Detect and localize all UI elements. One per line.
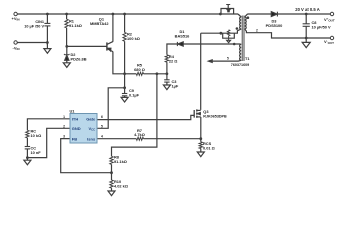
pin number 2 transformer bbox=[256, 29, 258, 33]
wire C8 stub bottom bbox=[305, 26, 307, 38]
capacitor C8 bbox=[303, 24, 310, 27]
wire C8 stub top bbox=[305, 14, 307, 24]
wire D2 top bbox=[66, 46, 68, 54]
ground R10 bbox=[108, 191, 115, 196]
wire gate line from pin6 bbox=[97, 115, 194, 119]
svg-text:10 µF/50 V: 10 µF/50 V bbox=[312, 24, 332, 29]
wire Q1 collector bbox=[112, 14, 114, 42]
snubber diode D4 bbox=[227, 9, 230, 11]
diode D3 bbox=[271, 12, 277, 17]
label R4 bbox=[169, 54, 178, 64]
svg-text:T1: T1 bbox=[245, 56, 250, 61]
transistor Q3 mosfet bbox=[194, 109, 201, 117]
junction node A node B bbox=[156, 72, 159, 75]
wire Isns line pin4 to R7 bbox=[97, 138, 136, 140]
wire secondary output to +VOUT bbox=[278, 13, 331, 15]
terminal -VIN bbox=[14, 41, 17, 44]
pin text GND bbox=[72, 126, 81, 131]
wire R8 to FB junction bbox=[111, 164, 113, 180]
resistor RC bbox=[26, 130, 29, 138]
pin text FB bbox=[72, 136, 77, 141]
label R8 bbox=[114, 154, 127, 164]
transformer T1 secondary winding bbox=[245, 17, 247, 29]
wire ITH to RC bbox=[27, 119, 70, 131]
junction R1 D2 base bbox=[65, 45, 68, 48]
wire R4 bottom to node B bbox=[166, 62, 168, 74]
svg-text:VCC: VCC bbox=[88, 126, 95, 132]
resistor RCS bbox=[199, 142, 202, 149]
label Q3 bbox=[203, 109, 227, 119]
svg-text:BAS516: BAS516 bbox=[175, 33, 191, 38]
svg-text:10 µF /50 V: 10 µF /50 V bbox=[24, 25, 44, 29]
terminal +VOUT bbox=[330, 12, 333, 15]
resistor R5 bbox=[136, 72, 143, 75]
diode D1 bbox=[177, 42, 183, 46]
svg-text:4.7kΩ: 4.7kΩ bbox=[134, 132, 145, 137]
terminal arrow aux bbox=[208, 60, 212, 63]
junction CC ground bbox=[26, 156, 29, 159]
junction output C8 top bbox=[305, 13, 308, 16]
svg-text:MMBTA42: MMBTA42 bbox=[90, 21, 109, 26]
phase dot aux bbox=[233, 43, 236, 46]
label D1 bbox=[175, 29, 191, 39]
wire CC to ground junction bbox=[26, 149, 28, 161]
wire CIN1 column bottom bbox=[46, 26, 48, 45]
pin number 5 transformer bbox=[227, 57, 229, 61]
ground C3 bbox=[163, 85, 170, 90]
svg-text:CIN1: CIN1 bbox=[35, 20, 44, 24]
svg-text:91.1kΩ: 91.1kΩ bbox=[69, 23, 82, 28]
phase dot secondary bbox=[247, 16, 250, 19]
svg-text:U1: U1 bbox=[70, 109, 76, 114]
label CIN1 value bbox=[24, 20, 44, 29]
label U1 bbox=[70, 109, 76, 114]
label RCS bbox=[203, 141, 215, 151]
resistor R2 bbox=[123, 32, 126, 41]
wire -VIN rail bbox=[17, 42, 47, 44]
capacitor C3 bbox=[164, 80, 169, 82]
svg-text:ITH: ITH bbox=[72, 117, 79, 122]
pin number 2 bbox=[63, 124, 65, 128]
capacitor CIN1 bbox=[44, 23, 50, 26]
pin text ITH bbox=[72, 117, 79, 122]
svg-text:Q3: Q3 bbox=[203, 109, 209, 114]
wire node A from R2 to R5 bbox=[125, 73, 137, 75]
label -VIN bbox=[13, 46, 20, 52]
svg-text:91.1kΩ: 91.1kΩ bbox=[114, 159, 127, 164]
label R10 bbox=[114, 179, 128, 189]
wire C9 node to VCC vertical bbox=[97, 88, 125, 129]
pin text Isns bbox=[87, 136, 96, 141]
wire Q1 base from R1/D2 node bbox=[67, 45, 107, 47]
label C9 bbox=[129, 88, 140, 98]
svg-text:22 Ω: 22 Ω bbox=[169, 58, 178, 63]
op-amp U1 LTC3803 body bbox=[70, 114, 97, 144]
svg-text:10 nF: 10 nF bbox=[31, 150, 42, 155]
junction node A D1/C3 bbox=[166, 72, 169, 75]
label C8 bbox=[312, 20, 332, 30]
svg-text:GND: GND bbox=[72, 126, 81, 131]
svg-text:4.02 kΩ: 4.02 kΩ bbox=[114, 184, 128, 189]
wire C9 stub bbox=[124, 88, 126, 94]
pin number 1 bbox=[63, 115, 65, 119]
svg-text:760371609: 760371609 bbox=[231, 63, 249, 67]
ground CC bbox=[24, 160, 31, 165]
label D2 bbox=[71, 52, 87, 62]
ground D2 bbox=[63, 63, 70, 68]
svg-text:V+OUT: V+OUT bbox=[324, 17, 335, 23]
junction rail R1 bbox=[65, 13, 68, 16]
svg-text:PDS5100: PDS5100 bbox=[266, 23, 283, 28]
wire CIN1 column top bbox=[46, 14, 48, 23]
junction RCS Isns bbox=[199, 137, 202, 140]
svg-text:0.01 Ω: 0.01 Ω bbox=[203, 146, 215, 151]
wire line A primary bottom to drain corner bbox=[201, 29, 242, 33]
snubber cap stub C4 bbox=[226, 5, 230, 9]
pin number 4 bbox=[101, 135, 103, 139]
snubber box D4/C4 on rail bbox=[221, 9, 234, 14]
svg-text:5: 5 bbox=[101, 124, 103, 128]
label Q1 bbox=[90, 16, 109, 26]
wire secondary top pin bbox=[245, 14, 272, 17]
resistor R8 bbox=[110, 156, 113, 164]
transformer T1 primary winding bbox=[240, 17, 242, 29]
wire R10 to ground bbox=[111, 188, 113, 191]
svg-text:20 V at 0.5 A: 20 V at 0.5 A bbox=[295, 7, 320, 12]
wire R2 column rail to zigzag bbox=[124, 14, 126, 32]
diode D2 zener bbox=[64, 54, 70, 60]
wire CIN1 ground stub bbox=[46, 43, 48, 49]
ground C9 bbox=[121, 97, 128, 102]
svg-text:5: 5 bbox=[227, 57, 229, 61]
label R1 bbox=[69, 18, 82, 28]
wire Q1 emitter down and node-A horizontal bbox=[113, 52, 125, 74]
svg-text:RJK0653DPB: RJK0653DPB bbox=[203, 115, 227, 119]
transistor Q1 bbox=[107, 42, 113, 52]
node +VIN top rail wire bbox=[17, 13, 238, 15]
svg-text:2: 2 bbox=[63, 124, 65, 128]
junction -VIN CIN1 bbox=[46, 41, 49, 44]
svg-text:1µF: 1µF bbox=[172, 83, 179, 88]
box filter on line A bbox=[223, 33, 235, 38]
wire RCS to ground bbox=[200, 149, 202, 153]
junction C9 node bbox=[123, 86, 126, 89]
resistor R10 bbox=[110, 180, 113, 188]
label +VOUT bbox=[324, 17, 335, 23]
svg-text:FB: FB bbox=[72, 136, 77, 141]
svg-text:0.1µF: 0.1µF bbox=[129, 92, 140, 97]
wire R4 top to D1 bbox=[167, 44, 177, 55]
svg-text:4: 4 bbox=[101, 135, 103, 139]
label R7 bbox=[134, 128, 145, 137]
wire D2 to ground bbox=[66, 60, 68, 63]
resistor R1 bbox=[65, 19, 68, 28]
junction rail snubber bbox=[219, 13, 222, 16]
svg-text:Isns: Isns bbox=[87, 136, 96, 141]
transformer T1 aux winding bbox=[240, 44, 242, 60]
svg-text:PDZ6.8B: PDZ6.8B bbox=[71, 57, 87, 62]
pin text VCC bbox=[88, 126, 95, 132]
transformer T1 core bbox=[242, 16, 244, 62]
wire node B vertical down to FB divider bbox=[112, 74, 157, 157]
svg-text:3: 3 bbox=[63, 135, 65, 139]
junction line A box bbox=[220, 32, 223, 35]
pin number 6 bbox=[101, 115, 103, 119]
svg-text:10 kΩ: 10 kΩ bbox=[31, 133, 42, 138]
ground CIN1 bbox=[44, 49, 51, 54]
wire R1 column top bbox=[66, 14, 68, 19]
phase dot primary bbox=[236, 27, 239, 30]
label -VOUT bbox=[324, 39, 334, 45]
resistor R7 bbox=[136, 137, 143, 140]
svg-text:-VIN: -VIN bbox=[13, 46, 20, 52]
capacitor C9 bbox=[122, 94, 127, 96]
label R2 bbox=[127, 32, 140, 42]
svg-text:+VIN: +VIN bbox=[12, 16, 20, 22]
svg-text:6: 6 bbox=[101, 115, 103, 119]
wire C3 to ground bbox=[166, 82, 168, 85]
label CC bbox=[31, 145, 42, 155]
wire node A R5 right to node B bbox=[144, 73, 167, 75]
pin number 5 bbox=[101, 124, 103, 128]
wire R2 zigzag to node A bbox=[124, 41, 126, 74]
pin number 3 bbox=[63, 135, 65, 139]
label C3 bbox=[172, 79, 179, 89]
terminal -VOUT bbox=[330, 36, 333, 39]
resistor R4 bbox=[165, 55, 168, 62]
ground C8 bbox=[302, 42, 310, 47]
wire GND pin route bbox=[27, 128, 70, 157]
wire secondary bottom to -VOUT bbox=[245, 29, 331, 38]
junction FB divider bbox=[110, 171, 113, 174]
svg-text:2: 2 bbox=[256, 29, 258, 33]
junction rail Q1 collector bbox=[112, 13, 115, 16]
svg-text:100 kΩ: 100 kΩ bbox=[127, 36, 140, 41]
svg-text:680 Ω: 680 Ω bbox=[134, 67, 145, 72]
svg-text:V-OUT: V-OUT bbox=[324, 39, 334, 45]
wire primary top pin drop bbox=[238, 14, 241, 17]
terminal +VIN bbox=[14, 12, 17, 15]
wire FB pin route bbox=[61, 139, 112, 173]
wire R2 column node A to C9 node bbox=[124, 74, 126, 88]
pin text Gate bbox=[86, 117, 96, 122]
wire Q3 source down to RCS bbox=[200, 117, 202, 142]
wire Isns R7 to RCS node bbox=[144, 138, 201, 140]
junction output C8 bottom bbox=[305, 37, 308, 40]
wire RC to CC bbox=[26, 138, 28, 146]
wire R1 column bottom bbox=[66, 28, 68, 47]
label 20V at 0.5A bbox=[295, 7, 320, 12]
junction node A R2 bbox=[123, 72, 126, 75]
label T1 bbox=[231, 56, 251, 67]
svg-text:1: 1 bbox=[63, 115, 65, 119]
ground line A box bbox=[227, 38, 231, 42]
svg-text:Gate: Gate bbox=[86, 117, 96, 122]
wire C3 stub bbox=[166, 74, 168, 80]
label D3 bbox=[266, 19, 283, 29]
junction rail CIN1 bbox=[46, 13, 49, 16]
junction rail R2 bbox=[123, 13, 126, 16]
wire C9 to ground bbox=[124, 96, 126, 98]
label R5 bbox=[134, 63, 145, 73]
resistor in line A box bbox=[227, 30, 229, 38]
wire aux winding bottom to arrow bbox=[212, 59, 241, 62]
wire C8 ground stub bbox=[305, 38, 307, 42]
capacitor CC bbox=[25, 147, 30, 149]
ground RCS bbox=[197, 152, 204, 157]
label +VIN bbox=[12, 16, 20, 22]
wire drain vertical to Q3 bbox=[200, 33, 202, 110]
wire D1 anode to aux winding top bbox=[183, 43, 241, 45]
label RC bbox=[31, 128, 42, 138]
